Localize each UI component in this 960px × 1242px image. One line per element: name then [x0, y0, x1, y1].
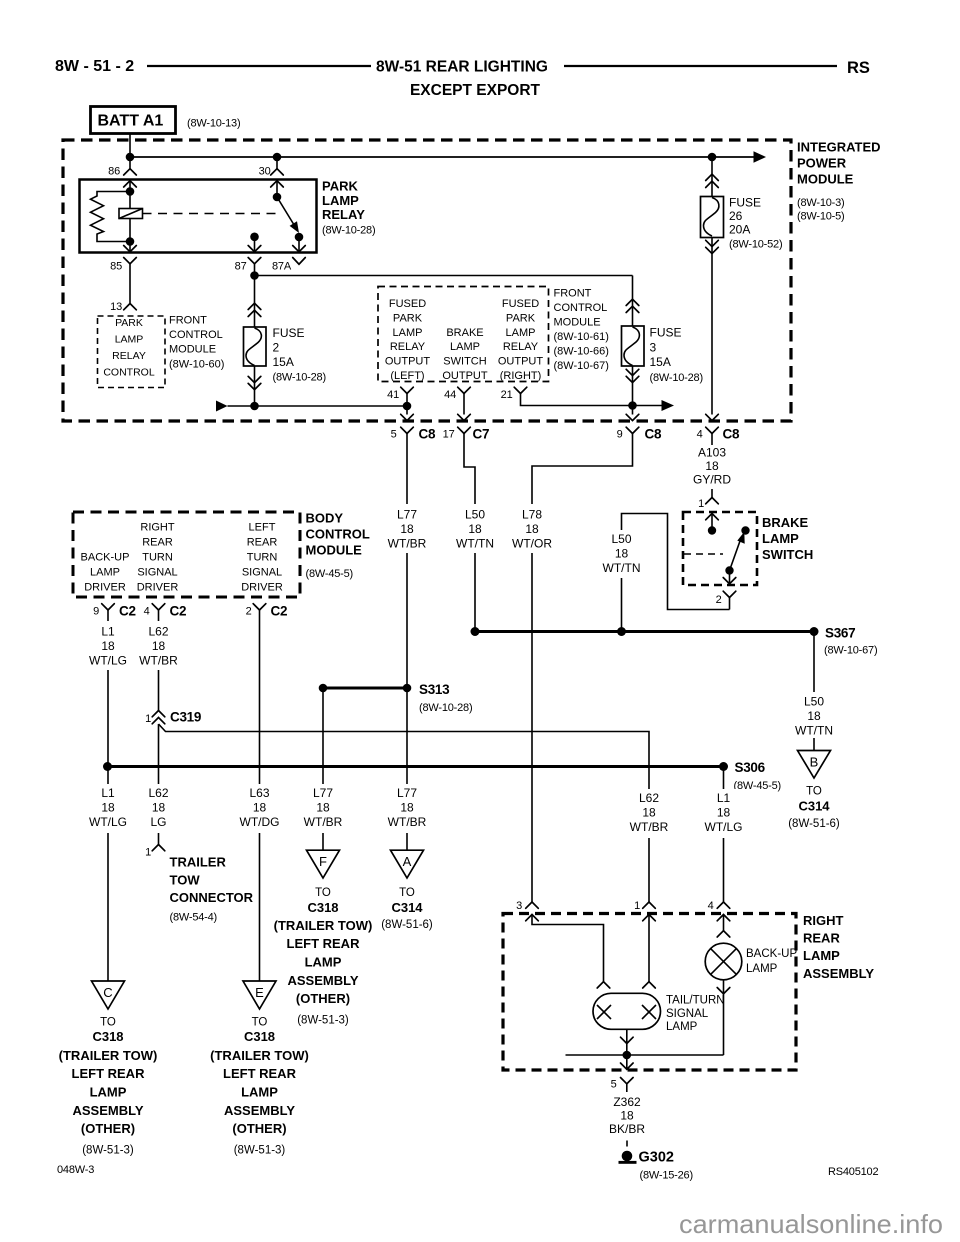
- svg-text:TURN: TURN: [142, 552, 173, 564]
- front control module label right: [554, 288, 609, 372]
- svg-text:OUTPUT: OUTPUT: [442, 370, 488, 382]
- svg-text:A103: A103: [698, 446, 726, 460]
- brake switch node bottom: [725, 566, 733, 574]
- svg-text:BACK-UP: BACK-UP: [81, 552, 130, 564]
- svg-text:(8W-10-5): (8W-10-5): [797, 211, 845, 223]
- svg-text:FUSE: FUSE: [650, 326, 682, 340]
- fuse 26 label: [729, 196, 782, 251]
- label A103 gy/rd: [690, 445, 734, 489]
- pin 1 brake lamp switch: [698, 498, 718, 511]
- svg-text:OUTPUT: OUTPUT: [385, 356, 431, 368]
- svg-text:L77: L77: [397, 507, 417, 521]
- brake switch contact node: [741, 526, 749, 534]
- svg-text:L77: L77: [397, 786, 417, 800]
- svg-text:4: 4: [144, 606, 150, 618]
- park lamp relay label: [322, 179, 375, 237]
- park lamp relay control label: [103, 317, 154, 379]
- svg-text:17: 17: [443, 429, 455, 441]
- svg-text:MODULE: MODULE: [169, 344, 216, 356]
- off-page triangle E: [243, 981, 276, 1009]
- svg-text:1: 1: [145, 713, 151, 725]
- fuse 3 clip top: [626, 299, 639, 312]
- svg-text:WT/BR: WT/BR: [304, 815, 343, 829]
- wire fuse 2 column: [254, 276, 256, 407]
- svg-text:WT/TN: WT/TN: [795, 724, 833, 738]
- svg-text:9: 9: [93, 606, 99, 618]
- pin 5 connector: [611, 1078, 634, 1093]
- svg-text:C314: C314: [798, 799, 830, 814]
- battery feed box BATT A1: [91, 107, 241, 134]
- svg-text:DRIVER: DRIVER: [137, 581, 179, 593]
- svg-text:(TRAILER TOW): (TRAILER TOW): [274, 918, 373, 933]
- svg-text:(8W-10-67): (8W-10-67): [554, 360, 609, 372]
- fuse 2: [244, 327, 267, 366]
- node S313 left: [319, 684, 328, 693]
- relay armature dashed link: [143, 213, 281, 215]
- wire node to pin 30: [276, 157, 278, 169]
- svg-text:WT/LG: WT/LG: [89, 815, 127, 829]
- label L63 wt/dg: [238, 784, 282, 833]
- wire fuse 26 column: [711, 157, 713, 415]
- pin 1 connector: [634, 900, 655, 912]
- relay pin 87A terminal arrow: [293, 237, 306, 252]
- svg-text:WT/OR: WT/OR: [512, 537, 552, 551]
- tail/turn lamp right terminal: [643, 982, 656, 988]
- svg-text:G302: G302: [639, 1150, 674, 1166]
- svg-text:F: F: [319, 854, 327, 869]
- svg-text:(8W-10-13): (8W-10-13): [187, 118, 240, 130]
- svg-text:048W-3: 048W-3: [57, 1164, 94, 1176]
- svg-text:LAMP: LAMP: [666, 1021, 698, 1033]
- svg-text:BRAKE: BRAKE: [446, 327, 483, 339]
- output bus left segment: [216, 401, 407, 412]
- relay pin 87 terminal arrow: [248, 237, 261, 252]
- wire L50 from 17 C7: [464, 434, 475, 632]
- off-page triangle B: [798, 751, 831, 779]
- svg-text:CONTROL: CONTROL: [103, 367, 154, 379]
- svg-text:LAMP: LAMP: [746, 963, 778, 975]
- svg-text:S313: S313: [419, 682, 450, 697]
- wire brake switch return jog: [622, 514, 730, 632]
- node pin 87 output: [250, 271, 259, 280]
- svg-text:18: 18: [101, 801, 115, 815]
- svg-text:3: 3: [650, 340, 657, 354]
- right rear lamp assembly dashed box: [503, 914, 796, 1071]
- svg-text:TOW: TOW: [170, 872, 201, 887]
- svg-text:(8W-10-67): (8W-10-67): [824, 645, 877, 657]
- svg-text:L1: L1: [101, 786, 115, 800]
- svg-text:C8: C8: [723, 427, 740, 442]
- svg-text:B: B: [810, 755, 819, 770]
- ground G302: [619, 1150, 693, 1182]
- svg-text:(8W-10-28): (8W-10-28): [419, 702, 472, 714]
- header rule right: [564, 65, 837, 67]
- svg-text:WT/TN: WT/TN: [456, 537, 494, 551]
- svg-text:LEFT REAR: LEFT REAR: [287, 936, 361, 951]
- tail/turn signal lamp label: [666, 995, 725, 1034]
- svg-text:87: 87: [235, 261, 247, 273]
- connector 2 C2: [246, 604, 288, 619]
- svg-text:L50: L50: [804, 695, 824, 709]
- node S313 right: [403, 684, 412, 693]
- svg-text:BK/BR: BK/BR: [609, 1122, 645, 1136]
- svg-text:BRAKE: BRAKE: [762, 515, 809, 530]
- back-up lamp driver label: [81, 552, 130, 594]
- svg-text:85: 85: [110, 261, 122, 273]
- svg-text:(OTHER): (OTHER): [232, 1121, 286, 1136]
- svg-text:(OTHER): (OTHER): [296, 991, 350, 1006]
- pin 1 terminal arrow: [643, 915, 656, 982]
- brake switch blade: [730, 532, 745, 571]
- label L62 lg: [137, 784, 181, 833]
- brake switch pin 2 terminal arrow: [723, 571, 736, 584]
- svg-text:C319: C319: [170, 710, 201, 725]
- destination label E: [210, 1016, 309, 1156]
- fuse 3 arrow at module edge: [626, 414, 639, 420]
- svg-text:SIGNAL: SIGNAL: [666, 1008, 709, 1020]
- label L78 wt/or: [510, 504, 554, 553]
- splice S313 label: [419, 682, 472, 714]
- pin 44 connector: [444, 387, 470, 414]
- svg-text:L50: L50: [465, 507, 485, 521]
- pin 3 terminal arrow: [526, 915, 604, 982]
- svg-text:LAMP: LAMP: [506, 327, 536, 339]
- svg-text:(OTHER): (OTHER): [81, 1121, 135, 1136]
- pin 4 connector: [708, 900, 730, 912]
- right rear turn signal driver label: [137, 522, 179, 594]
- svg-text:18: 18: [620, 1109, 634, 1123]
- svg-text:5: 5: [611, 1079, 617, 1091]
- svg-text:carmanualsonline.info: carmanualsonline.info: [679, 1209, 943, 1239]
- node S367 right: [810, 627, 819, 636]
- svg-text:SWITCH: SWITCH: [443, 356, 486, 368]
- connector 4 C8: [697, 427, 740, 442]
- off-page triangle F: [307, 850, 340, 878]
- svg-text:LEFT: LEFT: [249, 522, 276, 534]
- svg-text:PARK: PARK: [506, 312, 536, 324]
- node fuse 3 output: [628, 401, 637, 410]
- svg-text:(8W-51-3): (8W-51-3): [234, 1145, 286, 1157]
- relay switch blade: [277, 197, 299, 233]
- header RS: [847, 59, 870, 77]
- connector 9 C2: [93, 604, 136, 619]
- svg-text:C314: C314: [391, 900, 423, 915]
- svg-text:C2: C2: [271, 604, 288, 619]
- svg-text:18: 18: [615, 547, 629, 561]
- header title: [376, 59, 548, 100]
- pin 3 connector: [516, 900, 538, 912]
- pin 41 arrow at module edge: [401, 414, 414, 420]
- integrated power module dashed box: [63, 140, 791, 421]
- svg-text:LAMP: LAMP: [393, 327, 423, 339]
- svg-text:WT/BR: WT/BR: [388, 537, 427, 551]
- wire C319 branch to right: [159, 724, 650, 902]
- svg-text:C318: C318: [92, 1029, 123, 1044]
- svg-text:S367: S367: [825, 626, 855, 641]
- svg-text:18: 18: [400, 522, 414, 536]
- splice S367 label: [824, 626, 877, 657]
- svg-text:TO: TO: [806, 786, 822, 798]
- svg-text:LAMP: LAMP: [762, 531, 799, 546]
- pin 30 connector: [259, 166, 284, 178]
- svg-text:L62: L62: [148, 624, 168, 638]
- svg-text:GY/RD: GY/RD: [693, 473, 731, 487]
- svg-text:8W-51 REAR LIGHTING: 8W-51 REAR LIGHTING: [376, 59, 548, 76]
- ground wire arrow at lamp edge: [621, 1055, 634, 1069]
- svg-text:L62: L62: [639, 791, 659, 805]
- relay switch 87A node: [295, 233, 304, 242]
- svg-text:REAR: REAR: [247, 537, 278, 549]
- svg-text:15A: 15A: [650, 355, 671, 369]
- wire L62 below C319: [158, 724, 160, 845]
- wire 87 to fuse 3: [255, 275, 633, 277]
- pin 87A connector: [272, 258, 305, 273]
- svg-text:(8W-10-28): (8W-10-28): [273, 372, 326, 384]
- svg-text:ASSEMBLY: ASSEMBLY: [72, 1103, 143, 1118]
- pin 4 terminal arrow: [717, 915, 730, 931]
- integrated power module label: [797, 140, 881, 223]
- svg-text:4: 4: [697, 429, 703, 441]
- svg-text:2: 2: [273, 341, 280, 355]
- svg-text:1: 1: [634, 900, 640, 912]
- fuse 2 label: [273, 326, 326, 384]
- wire to ground: [626, 1141, 628, 1147]
- svg-text:30: 30: [259, 166, 271, 178]
- svg-text:FUSE: FUSE: [273, 326, 305, 340]
- wire L77 from 5 C8: [406, 434, 408, 851]
- in-line connector C319: [145, 710, 201, 726]
- splice bus S306: [108, 765, 724, 768]
- svg-text:Z362: Z362: [613, 1095, 641, 1109]
- node S306 right: [719, 762, 728, 771]
- relay coil: [119, 192, 143, 242]
- svg-text:REAR: REAR: [803, 931, 840, 946]
- footer sheet number: [57, 1164, 94, 1176]
- relay pin 30 terminal arrow: [271, 181, 284, 197]
- svg-text:RELAY: RELAY: [503, 341, 539, 353]
- svg-text:44: 44: [444, 389, 456, 401]
- relay resistor: [91, 192, 131, 242]
- svg-text:MODULE: MODULE: [306, 543, 363, 558]
- svg-text:8W - 51 - 2: 8W - 51 - 2: [55, 58, 134, 75]
- fuse 3 label: [650, 326, 703, 384]
- svg-text:C7: C7: [473, 427, 490, 442]
- wire L63 from 2 C2: [259, 610, 261, 981]
- off-page triangle A: [391, 850, 424, 878]
- svg-text:RIGHT: RIGHT: [803, 913, 844, 928]
- svg-text:18: 18: [152, 801, 166, 815]
- relay coil node top: [126, 187, 135, 196]
- svg-text:LAMP: LAMP: [322, 193, 359, 208]
- wire pin 85 to pin 13: [129, 272, 131, 304]
- svg-text:18: 18: [642, 806, 656, 820]
- svg-text:(8W-54-4): (8W-54-4): [170, 912, 218, 924]
- park lamp relay control dashed box: [98, 316, 166, 388]
- svg-text:BATT A1: BATT A1: [98, 113, 164, 130]
- svg-text:FUSE: FUSE: [729, 196, 761, 210]
- svg-text:(TRAILER TOW): (TRAILER TOW): [59, 1048, 158, 1063]
- svg-text:CONTROL: CONTROL: [306, 527, 370, 542]
- wire L50 to B: [813, 632, 815, 751]
- destination label A: [381, 887, 433, 931]
- fuse 26 clip bottom: [706, 240, 719, 253]
- pin 86 connector: [108, 166, 136, 178]
- tail/turn signal lamp: [593, 993, 661, 1029]
- svg-text:C318: C318: [244, 1029, 275, 1044]
- label L77 wt/br to A: [385, 784, 429, 833]
- splice bus S313: [323, 687, 407, 690]
- svg-text:FRONT: FRONT: [554, 288, 592, 300]
- brake lamp switch label: [762, 515, 813, 562]
- pin 13 connector: [110, 301, 136, 313]
- svg-text:CONTROL: CONTROL: [554, 302, 608, 314]
- svg-text:TO: TO: [252, 1016, 268, 1028]
- svg-text:BACK-UP: BACK-UP: [746, 948, 797, 960]
- svg-text:LAMP: LAMP: [90, 1085, 127, 1100]
- node S367 left: [471, 627, 480, 636]
- label L77 wt/br upper: [385, 504, 429, 553]
- svg-text:41: 41: [387, 389, 399, 401]
- watermark: [679, 1209, 943, 1239]
- svg-text:WT/DG: WT/DG: [240, 815, 280, 829]
- node S367 middle: [617, 627, 626, 636]
- splice bus S367: [475, 630, 814, 633]
- svg-text:(8W-10-52): (8W-10-52): [729, 239, 782, 251]
- svg-text:WT/LG: WT/LG: [705, 820, 743, 834]
- wire L77 branch to F: [322, 688, 324, 850]
- brake switch node top: [708, 526, 716, 534]
- svg-text:LEFT REAR: LEFT REAR: [223, 1066, 297, 1081]
- svg-text:RS405102: RS405102: [828, 1166, 878, 1178]
- svg-text:WT/BR: WT/BR: [388, 815, 427, 829]
- ground node: [623, 1051, 632, 1060]
- svg-text:FRONT: FRONT: [169, 315, 207, 327]
- back-up lamp bottom wire: [723, 980, 725, 1055]
- svg-text:RELAY: RELAY: [390, 341, 426, 353]
- svg-text:18: 18: [101, 639, 115, 653]
- svg-text:A: A: [403, 854, 412, 869]
- front control module label left: [169, 315, 224, 371]
- svg-text:DRIVER: DRIVER: [241, 581, 283, 593]
- svg-text:LAMP: LAMP: [115, 334, 144, 346]
- svg-text:TRAILER: TRAILER: [170, 855, 227, 870]
- back-up lamp terminal top: [717, 931, 730, 937]
- relay pin 86 terminal arrow: [124, 181, 137, 192]
- label L62 wt/br right: [627, 789, 671, 838]
- svg-text:L77: L77: [313, 786, 333, 800]
- svg-text:26: 26: [729, 209, 743, 223]
- svg-text:L63: L63: [249, 786, 269, 800]
- svg-text:PARK: PARK: [322, 179, 358, 194]
- trailer tow connector pin 1: [145, 845, 165, 859]
- svg-text:MODULE: MODULE: [797, 172, 854, 187]
- label L50 wt/tn switch return: [600, 530, 644, 578]
- destination label B: [788, 786, 840, 831]
- svg-text:(8W-51-3): (8W-51-3): [82, 1145, 134, 1157]
- svg-text:18: 18: [253, 801, 267, 815]
- connector 4 C2: [144, 604, 187, 619]
- svg-text:BODY: BODY: [306, 511, 344, 526]
- node fuse 2 output: [250, 402, 259, 411]
- node at pin 30 feed: [273, 153, 282, 162]
- trailer tow connector label: [170, 855, 254, 924]
- svg-text:CONTROL: CONTROL: [169, 329, 223, 341]
- svg-text:(8W-10-3): (8W-10-3): [797, 197, 845, 209]
- label L62 wt/br upper: [137, 621, 181, 670]
- label L77 wt/br to F: [301, 784, 345, 833]
- pin 41 connector: [387, 387, 413, 414]
- header page number: [55, 58, 134, 75]
- fuse 26: [701, 197, 724, 238]
- svg-text:TURN: TURN: [247, 552, 278, 564]
- svg-text:WT/TN: WT/TN: [603, 561, 641, 575]
- svg-text:FUSED: FUSED: [502, 298, 539, 310]
- svg-text:15A: 15A: [273, 355, 294, 369]
- connector 17 C7: [443, 427, 490, 442]
- svg-text:OUTPUT: OUTPUT: [498, 356, 544, 368]
- node S306 left: [103, 762, 112, 771]
- svg-text:5: 5: [391, 429, 397, 441]
- svg-text:LAMP: LAMP: [241, 1085, 278, 1100]
- brake switch pin 1 terminal arrow: [706, 514, 719, 531]
- svg-text:LG: LG: [150, 815, 166, 829]
- svg-text:2: 2: [716, 594, 722, 606]
- svg-text:18: 18: [152, 639, 166, 653]
- back-up lamp terminal bottom: [717, 988, 730, 994]
- node pin 41: [403, 402, 412, 411]
- svg-text:L1: L1: [717, 791, 731, 805]
- svg-text:(RIGHT): (RIGHT): [500, 370, 542, 382]
- wire L62 from 4 C2: [158, 610, 160, 711]
- svg-text:(8W-10-28): (8W-10-28): [650, 372, 703, 384]
- fuse 3 clip bottom: [626, 369, 639, 382]
- left rear turn signal driver label: [241, 522, 283, 594]
- fuse 2 clip bottom: [248, 376, 261, 389]
- pin 85 connector: [110, 258, 136, 273]
- svg-text:2: 2: [246, 606, 252, 618]
- svg-text:E: E: [255, 985, 264, 1000]
- svg-text:(TRAILER TOW): (TRAILER TOW): [210, 1048, 309, 1063]
- svg-text:SIGNAL: SIGNAL: [242, 566, 282, 578]
- svg-text:MODULE: MODULE: [554, 317, 601, 329]
- svg-text:PARK: PARK: [115, 317, 143, 329]
- svg-text:RS: RS: [847, 59, 870, 77]
- svg-text:18: 18: [525, 522, 539, 536]
- svg-text:87A: 87A: [272, 261, 292, 273]
- fused park lamp relay output left label: [385, 298, 431, 382]
- svg-text:FUSED: FUSED: [389, 298, 426, 310]
- ground bus inside lamp: [566, 1054, 724, 1056]
- off-page triangle C: [92, 981, 125, 1009]
- fuse 26 clip top: [706, 174, 719, 187]
- fcm outputs dashed box: [378, 287, 549, 382]
- wire BATT A1 to node: [129, 134, 131, 169]
- svg-text:(8W-10-66): (8W-10-66): [554, 345, 609, 357]
- svg-text:DRIVER: DRIVER: [84, 581, 126, 593]
- wire L1 to lamp pin 4: [723, 767, 725, 903]
- svg-text:WT/BR: WT/BR: [139, 654, 178, 668]
- svg-text:C: C: [103, 985, 112, 1000]
- label L1 wt/lg lower: [86, 784, 130, 833]
- svg-text:EXCEPT EXPORT: EXCEPT EXPORT: [410, 82, 541, 99]
- body control module dashed box: [73, 512, 300, 597]
- svg-text:C318: C318: [307, 900, 338, 915]
- fused park lamp relay output right label: [498, 298, 544, 382]
- label Z362 bk/br: [609, 1095, 645, 1136]
- relay pin 85 terminal arrow: [124, 242, 137, 252]
- wire A103 from 4 C8: [711, 434, 713, 498]
- fuse 26 arrow at module edge: [706, 414, 719, 420]
